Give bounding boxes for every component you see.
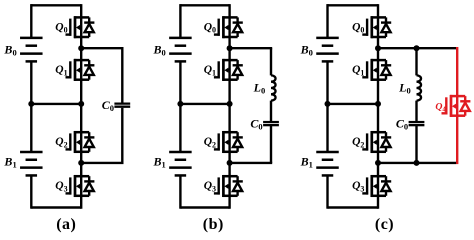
wire L-C link fig(c)	[415, 101, 417, 122]
label L0 fig(c)	[398, 80, 411, 95]
battery B1 fig(c)	[316, 152, 339, 176]
wire Q4 branch lower red	[456, 116, 458, 164]
wire middle rail fig(c)	[328, 103, 379, 105]
wire bottom rail fig(c)	[328, 206, 379, 208]
capacitor C0 fig(c)	[409, 122, 425, 125]
svg-text:Q1: Q1	[204, 64, 216, 77]
node junction stack-mid fig(c)	[375, 101, 381, 107]
svg-text:B1: B1	[300, 154, 313, 169]
label Q3 fig(a)	[55, 180, 67, 193]
caption (c)	[375, 216, 394, 233]
svg-text:Q2: Q2	[204, 136, 216, 149]
wire top rail fig(a)	[31, 4, 81, 6]
node junction Q0-Q1 fig(b)	[227, 45, 233, 51]
transistor Q0 fig(a)	[66, 16, 95, 38]
label B1 fig(c)	[300, 154, 313, 169]
wire left rail upper fig(a)	[30, 4, 32, 38]
svg-text:Q3: Q3	[352, 180, 364, 193]
svg-text:Q4: Q4	[435, 101, 446, 113]
svg-text:C0: C0	[396, 116, 408, 131]
svg-text:B1: B1	[3, 154, 16, 169]
label Q1 fig(b)	[204, 64, 216, 77]
battery B1 fig(b)	[169, 152, 192, 176]
wire left rail lower fig(b)	[179, 175, 181, 208]
label Q3 fig(b)	[204, 180, 216, 193]
svg-text:Q2: Q2	[352, 136, 364, 149]
wire left rail middle fig(a)	[30, 61, 32, 152]
wire bottom rail fig(b)	[180, 206, 229, 208]
wire LC branch top fig(b)	[230, 48, 273, 75]
node junction Q0-Q1 fig(a)	[78, 45, 84, 51]
wire left rail middle fig(b)	[179, 61, 181, 152]
wire middle rail fig(b)	[180, 103, 229, 105]
label B1 fig(a)	[3, 154, 16, 169]
transistor Q2 fig(b)	[214, 131, 243, 153]
label C0 fig(b)	[250, 116, 262, 131]
label B0 fig(a)	[3, 42, 16, 57]
svg-text:Q1: Q1	[55, 64, 67, 77]
wire top rail fig(b)	[180, 4, 229, 6]
svg-text:C0: C0	[250, 116, 262, 131]
label Q4 red	[435, 101, 446, 113]
transistor Q1 fig(c)	[362, 59, 391, 81]
transistor Q0 fig(c)	[362, 16, 391, 38]
svg-text:B0: B0	[153, 42, 166, 57]
label C0 fig(c)	[396, 116, 408, 131]
svg-text:L0: L0	[253, 80, 266, 95]
transistor Q4 red	[442, 95, 471, 117]
wire mosfet stack fig(c)	[377, 4, 379, 209]
label Q0 fig(c)	[352, 21, 364, 34]
wire bottom rail fig(a)	[31, 206, 81, 208]
transistor Q1 fig(a)	[66, 59, 95, 81]
label Q1 fig(c)	[352, 64, 364, 77]
wire left rail middle fig(c)	[326, 61, 328, 152]
svg-text:B0: B0	[3, 42, 16, 57]
node junction branch-top tap fig(c)	[414, 45, 420, 51]
label L0 fig(b)	[253, 80, 266, 95]
wire bottom feed to Q4 branch fig(c)	[417, 162, 457, 164]
transistor Q1 fig(b)	[214, 59, 243, 81]
wire top rail fig(c)	[328, 4, 379, 6]
svg-text:C0: C0	[102, 98, 114, 113]
label Q0 fig(b)	[204, 21, 216, 34]
wire L-C link fig(b)	[270, 101, 272, 122]
node junction Q2-Q3 fig(b)	[227, 160, 233, 166]
label Q2 fig(a)	[55, 136, 67, 149]
battery B0 fig(b)	[169, 38, 192, 62]
transistor Q2 fig(a)	[66, 131, 95, 153]
inductor L0 fig(b)	[271, 75, 276, 100]
transistor Q3 fig(c)	[362, 175, 391, 197]
node junction branch-bottom tap fig(c)	[414, 160, 420, 166]
wire mosfet stack fig(b)	[228, 4, 230, 209]
wire left rail upper fig(c)	[326, 4, 328, 38]
svg-text:Q0: Q0	[204, 21, 216, 34]
svg-text:B1: B1	[153, 154, 166, 169]
battery B1 fig(a)	[20, 152, 43, 176]
svg-text:(c): (c)	[375, 216, 394, 233]
battery B0 fig(c)	[316, 38, 339, 62]
label Q3 fig(c)	[352, 180, 364, 193]
node junction left-mid fig(c)	[325, 101, 331, 107]
svg-text:Q0: Q0	[352, 21, 364, 34]
node junction Q2-Q3 fig(a)	[78, 160, 84, 166]
node junction left-mid fig(a)	[28, 101, 34, 107]
wire LC branch top fig(c)	[378, 48, 418, 75]
label Q2 fig(b)	[204, 136, 216, 149]
wire cap branch bottom fig(a)	[81, 108, 123, 163]
svg-text:Q0: Q0	[55, 21, 67, 34]
node junction left-mid fig(b)	[177, 101, 183, 107]
wire middle rail fig(a)	[31, 103, 81, 105]
svg-text:(a): (a)	[56, 216, 76, 233]
node junction Q0-Q1 fig(c)	[375, 45, 381, 51]
wire top feed to Q4 branch fig(c)	[417, 47, 457, 49]
node junction stack-mid fig(b)	[227, 101, 233, 107]
wire cap branch top fig(a)	[81, 48, 123, 102]
label Q0 fig(a)	[55, 21, 67, 34]
wire left rail upper fig(b)	[179, 4, 181, 38]
svg-text:Q2: Q2	[55, 136, 67, 149]
label C0 fig(a)	[102, 98, 114, 113]
svg-text:Q3: Q3	[55, 180, 67, 193]
capacitor C0 fig(b)	[263, 122, 279, 125]
label Q2 fig(c)	[352, 136, 364, 149]
inductor L0 fig(c)	[417, 75, 422, 100]
wire LC branch bottom fig(b)	[230, 125, 273, 163]
label Q1 fig(a)	[55, 64, 67, 77]
caption (b)	[203, 216, 224, 233]
label B1 fig(b)	[153, 154, 166, 169]
wire left rail lower fig(a)	[30, 175, 32, 208]
svg-text:Q1: Q1	[352, 64, 364, 77]
svg-text:Q3: Q3	[204, 180, 216, 193]
wire LC branch bottom fig(c)	[378, 125, 418, 163]
wire left rail lower fig(c)	[326, 175, 328, 208]
transistor Q3 fig(b)	[214, 175, 243, 197]
capacitor C0 fig(a)	[114, 104, 130, 107]
svg-text:(b): (b)	[203, 216, 224, 233]
node junction Q2-Q3 fig(c)	[375, 160, 381, 166]
caption (a)	[56, 216, 76, 233]
node junction stack-mid fig(a)	[78, 101, 84, 107]
label B0 fig(b)	[153, 42, 166, 57]
label B0 fig(c)	[300, 42, 313, 57]
wire Q4 channel vertical red	[456, 96, 458, 116]
svg-text:B0: B0	[300, 42, 313, 57]
battery B0 fig(a)	[20, 38, 43, 62]
transistor Q0 fig(b)	[214, 16, 243, 38]
wire mosfet stack fig(a)	[80, 4, 82, 209]
svg-text:L0: L0	[398, 80, 411, 95]
wire Q4 branch upper red	[456, 47, 458, 96]
transistor Q3 fig(a)	[66, 175, 95, 197]
transistor Q2 fig(c)	[362, 131, 391, 153]
